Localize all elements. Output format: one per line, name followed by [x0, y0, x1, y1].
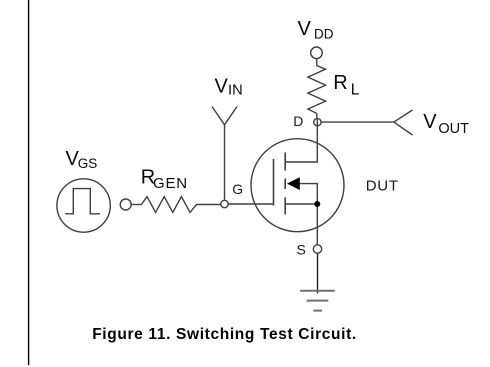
- svg-text:DD: DD: [314, 26, 334, 41]
- svg-text:IN: IN: [228, 83, 243, 99]
- svg-text:V: V: [298, 18, 312, 40]
- svg-text:G: G: [232, 181, 243, 197]
- svg-text:D: D: [293, 113, 303, 129]
- svg-text:V: V: [215, 76, 229, 98]
- svg-text:Figure 11. Switching Test Circ: Figure 11. Switching Test Circuit.: [92, 326, 357, 343]
- svg-text:S: S: [297, 241, 306, 257]
- svg-text:R: R: [333, 72, 347, 94]
- svg-text:GS: GS: [78, 156, 98, 171]
- svg-text:OUT: OUT: [438, 121, 469, 137]
- svg-text:L: L: [351, 82, 360, 99]
- svg-text:DUT: DUT: [366, 177, 399, 194]
- svg-text:GEN: GEN: [153, 175, 188, 192]
- svg-text:V: V: [423, 111, 437, 133]
